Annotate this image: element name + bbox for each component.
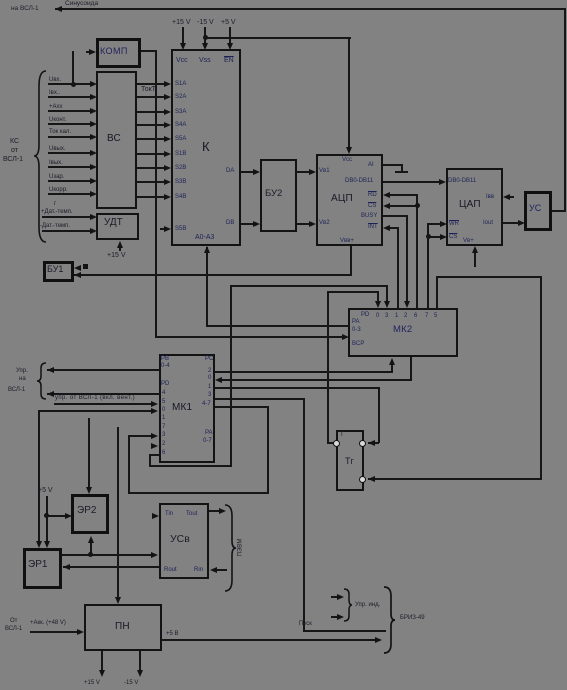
wire ВС to К S4B	[137, 196, 166, 198]
pin PC0	[208, 375, 211, 382]
pin 2 (МК2)	[404, 313, 407, 320]
brace БРИЗ-49	[383, 586, 395, 654]
label +15 V (УДТ)	[107, 252, 126, 260]
wire МК1 PC3 drop (vertical to Пуск)	[303, 398, 305, 632]
pin Iвх (ЦАП right)	[486, 194, 494, 201]
wire stub into ЦАП Iвх	[505, 196, 514, 198]
label ТокТ	[141, 86, 156, 94]
pin S4B	[175, 194, 186, 201]
node Uкорр	[49, 187, 68, 194]
pin А0-А3 (К bottom)	[195, 234, 214, 241]
wire Tout to ПЭВМ brace	[209, 510, 222, 512]
node bubble Тг left-top	[333, 440, 340, 447]
junction dot RD/CS	[415, 203, 420, 208]
pin DB0-DB11 (ЦАП)	[448, 178, 476, 185]
pin S2A	[175, 94, 186, 101]
wire МК1 PD6 riser (vertical x231)	[230, 285, 232, 467]
pin Tin	[165, 511, 173, 518]
wire МК1 PC2 to МК2 bottom (horizontal)	[215, 371, 393, 373]
wire PC4-7 loop bottom (horizontal)	[128, 492, 269, 494]
wire WR from МК2 pin7 riser	[428, 223, 442, 225]
wire +5V into ЭР2	[46, 515, 67, 517]
junction dot WR/CS riser	[426, 234, 431, 239]
wire INT (АЦП to МК2 pin1)	[383, 225, 390, 231]
arrowhead на ВСЛ-1 (left end of sine line)	[55, 6, 62, 12]
wire ВС to К S1B	[137, 153, 166, 155]
wire stub into Tin	[152, 513, 159, 519]
wire Iout ЦАП to УС	[503, 222, 520, 224]
brace Упр. инд.	[343, 588, 352, 622]
wire МК1 PC1 drop to Тг right-top bubble	[378, 387, 380, 443]
wire stub into К S5B	[160, 228, 166, 230]
wire ЭР1 to УСв (horizontal)	[62, 554, 153, 556]
buffer БУ2	[260, 159, 297, 232]
wire МК2 bottom to МК1 PC0 (vertical)	[410, 357, 412, 381]
pin RD (АЦП)	[368, 192, 377, 199]
wire МК2 pin0 net (horizontal from Тг riser)	[327, 291, 379, 293]
wire Синусоида (sine output to ВСЛ-1, top horizontal)	[55, 8, 566, 10]
wire stub into КОМП input	[86, 51, 90, 53]
pin Rin	[194, 567, 203, 574]
node square marker near БУ1	[83, 264, 88, 269]
wire К DA to БУ2	[241, 171, 255, 173]
label +5 В (ПН output)	[166, 631, 179, 638]
pin PC1	[208, 384, 211, 391]
wire into Тг left-top bubble	[327, 442, 335, 444]
wire riser WR/CS down to МК2 pin7	[427, 223, 429, 308]
pin Vв2 (АЦП)	[319, 220, 330, 227]
arrowhead up into К А0-А3	[204, 246, 210, 253]
wire +5V to К EN	[229, 27, 231, 44]
wire ВС to К S1A	[137, 83, 166, 85]
wire +15V to К Vcc	[182, 27, 184, 44]
pin S2B	[175, 165, 186, 172]
pin CS (ЦАП)	[449, 234, 457, 241]
wire PC4-7 drop (vertical)	[267, 406, 269, 494]
pin S5B	[175, 226, 186, 233]
wire МК1 PD6 (horizontal out)	[149, 454, 159, 456]
node bubble Тг right-bottom	[359, 476, 366, 483]
node Uзар	[49, 174, 64, 181]
wire -15V to К Vss	[204, 27, 206, 44]
wire ВС to К S3B	[137, 181, 166, 183]
pin PC (МК1 right)	[205, 356, 213, 363]
pin Vcc (АЦП)	[342, 157, 352, 164]
arrowhead into К EN	[227, 43, 233, 50]
block БУ1	[43, 261, 74, 282]
label +5 V (К supply)	[221, 19, 236, 27]
label упр. от ВСЛ-1 (вкл. вент.)	[55, 395, 135, 402]
pin INT (АЦП)	[368, 224, 378, 231]
pin 7 (МК2)	[425, 313, 428, 320]
arrowhead into АЦП Vcc	[346, 147, 352, 154]
pin PD5	[162, 399, 165, 406]
node bubble Тг right-top	[359, 440, 366, 447]
wire down into МК2 pin3	[386, 285, 388, 303]
relay block ЭР2	[71, 494, 109, 534]
pin DB (К)	[226, 220, 234, 227]
wire ВС to К S2B	[137, 167, 166, 169]
pin S3A	[175, 109, 186, 116]
pin Rout	[164, 567, 177, 574]
power supply ПН	[84, 604, 162, 651]
wire stub Упр.инд upper	[331, 596, 338, 598]
wire БУ2 to АЦП Vв1	[297, 171, 311, 173]
wire КОМП net to МК2 BCP (horizontal)	[155, 336, 345, 338]
pin BUSY (АЦП)	[361, 213, 377, 220]
pin 3 (МК2)	[385, 313, 388, 320]
multiplexer К	[171, 49, 241, 246]
wire МК1 PD4 out to brace	[47, 393, 159, 395]
wire А0-А3 to МК2 PA (horizontal)	[206, 325, 349, 327]
wire -15V rail to АЦП Vcc (horizontal)	[205, 37, 351, 39]
microcontroller МК2	[348, 308, 458, 357]
pin 1 (МК2)	[395, 313, 398, 320]
pin PD6	[162, 450, 165, 457]
microcontroller МК1	[159, 354, 215, 463]
wire ВС to К S3A	[137, 111, 166, 113]
wire ПН -15V down	[139, 651, 141, 673]
arrowhead into Тг right-bottom bubble	[368, 476, 375, 482]
ADC АЦП	[316, 154, 383, 246]
wire PD6 down	[149, 454, 151, 467]
wire А0-А3 vertical (К bottom to МК2 PA row)	[206, 247, 208, 326]
label КС от ВСЛ-1	[10, 138, 19, 146]
pin PD7	[162, 424, 165, 431]
pin 0-4 (МК1)	[161, 363, 170, 370]
wire stub arrow into БУ1 upper	[74, 265, 81, 271]
wire МК1 PD7 drop to ПН	[117, 427, 119, 601]
wire МК1 PC3 (horizontal)	[215, 398, 305, 400]
label От ВСЛ-1	[10, 618, 17, 625]
pin PB (МК1)	[161, 356, 169, 363]
wire АЦП Vref vertical down	[350, 246, 352, 276]
wire into МК1 PD3	[128, 435, 152, 437]
label на ВСЛ-1	[11, 5, 39, 13]
wire stub Упр.инд lower	[331, 616, 338, 618]
label БРИЗ-49	[400, 615, 425, 622]
wire МК1 PC2 riser up into МК2 bottom	[391, 360, 393, 373]
wire right-edge vertical from УС output up to Синусоида line	[564, 8, 566, 212]
pin PC3	[208, 392, 211, 399]
wire loop up to МК1 PD3	[128, 435, 130, 494]
wire ВС to К S5A	[137, 138, 166, 140]
pin S4A	[175, 122, 186, 129]
wire BUSY (АЦП to МК2 pin2)	[383, 215, 408, 217]
pin Iout (ЦАП)	[483, 220, 493, 227]
label +15 V (ПН)	[84, 680, 100, 687]
pin BCP (МК2 left)	[352, 341, 364, 348]
wire ЭР2 bottom to ЭР1-УСв net	[90, 540, 92, 556]
label -15 V (К supply)	[197, 19, 214, 27]
label Синусоида	[65, 0, 98, 8]
pin PD2	[162, 441, 165, 448]
wire into МК1 PD5	[54, 403, 153, 405]
pin S1A	[175, 81, 186, 88]
pin PC4-7	[202, 401, 211, 408]
label Т (Тг top)	[340, 432, 344, 439]
pin Vss (К)	[199, 57, 211, 64]
pin S3B	[175, 179, 186, 186]
wire down to АЦП Vcc	[348, 37, 350, 149]
wire +5V rail down to ЭР1	[46, 496, 48, 544]
wire КОМП output right	[141, 50, 156, 52]
pin PD0	[162, 407, 165, 414]
wire Пуск (horizontal)	[303, 630, 386, 632]
arrowhead into К Vcc	[180, 43, 186, 50]
wire АЦП Vref to БУ1 (horizontal)	[74, 274, 352, 276]
temperature sensor block УДТ	[96, 213, 139, 240]
wire БУ2 to АЦП Vв2	[297, 223, 311, 225]
wire К DB to БУ2	[241, 223, 255, 225]
wire ПН +5В output (horizontal to brace)	[162, 639, 378, 641]
wire ПН +15V down	[101, 651, 103, 673]
label +15 V (К supply)	[172, 19, 191, 27]
label +5 V (ЭР rail)	[38, 487, 53, 495]
wire CS (АЦП)	[383, 203, 390, 209]
pin Tout	[186, 511, 197, 518]
pin 6 (МК2)	[414, 313, 417, 320]
pin WR (ЦАП)	[449, 221, 459, 228]
label Упр. на ВСЛ-1	[16, 368, 28, 375]
pin S1B	[175, 151, 186, 158]
wire МК2 pin3 net (horizontal МК1 PD6 riser to pin3)	[230, 285, 388, 287]
junction dot +5V / ЭР2 feed	[44, 513, 49, 518]
pin PA (МК1 right)	[205, 430, 213, 437]
comparator КОМП	[96, 38, 141, 68]
ground	[401, 164, 403, 172]
wire УСв Rout to ЭР1	[63, 566, 159, 568]
wire МК2 to МК1 PC0 (horizontal)	[221, 379, 411, 381]
wire МК2 pin5 to right drop (horizontal)	[436, 276, 542, 278]
pin Vref+ (АЦП bottom)	[340, 238, 354, 245]
pin Vcc (К)	[176, 57, 188, 64]
relay block ЭР1	[23, 548, 62, 589]
input selector ВС	[96, 71, 137, 209]
junction dot ЭР2 bottom net	[88, 552, 93, 557]
wire МК1 PC1 (horizontal)	[215, 387, 380, 389]
pin CS (АЦП)	[368, 203, 376, 210]
wire PD6 under МК1 (horizontal)	[149, 465, 232, 467]
node t° mark	[54, 201, 56, 208]
junction dot on Uвх wire	[71, 82, 76, 87]
pin 5 (МК2)	[434, 313, 437, 320]
pin PD (МК1)	[161, 381, 169, 388]
node Ток кал	[49, 129, 71, 136]
junction dot -15V rail / АЦП Vcc feed	[203, 35, 208, 40]
node Iвх	[49, 90, 60, 97]
pin AIN (АЦП)	[368, 162, 374, 169]
wire Rin from ПЭВМ brace	[216, 569, 227, 571]
label Тг	[345, 457, 354, 465]
label ПЭВМ (rotated)	[238, 531, 245, 565]
pin PD (МК2 top)	[361, 312, 369, 319]
wire into Тг right-top bubble	[368, 442, 379, 444]
pin 0 (МК2)	[376, 313, 379, 320]
node Uвых	[49, 146, 66, 153]
label +Акк. (+48 V)	[30, 620, 66, 627]
wire down into МК2 pin0	[377, 291, 379, 303]
pin Vв1 (АЦП)	[319, 168, 330, 175]
brace Упр. на ВСЛ-1	[37, 362, 47, 400]
node +Дат.темп.	[41, 209, 73, 216]
wire into МК1 PD0	[38, 410, 153, 412]
interface converter УСв	[159, 503, 209, 579]
wire МК1 PB0-4 out to brace	[47, 369, 159, 371]
brace ПЭВМ	[224, 504, 236, 592]
wire branch from Uвх up to КОМП	[72, 51, 74, 85]
pin Vref+ (ЦАП bottom)	[463, 238, 474, 245]
trigger Тг	[336, 430, 364, 491]
wire stub Vref+ into ЦАП bottom	[474, 248, 476, 267]
DAC ЦАП	[446, 168, 503, 246]
arrowhead into МК2 BCP	[342, 334, 349, 340]
node Uконт	[49, 117, 66, 124]
pin PC2	[208, 368, 211, 375]
label Пуск	[299, 621, 312, 628]
wire МК1 PD1 drop to ЭР2	[88, 418, 90, 489]
pin EN (К)	[224, 57, 234, 64]
wire DB0-DB11 bus АЦП to ЦАП	[383, 181, 443, 183]
label -15 V (ПН)	[124, 680, 138, 687]
node Iвых	[49, 160, 63, 167]
node +Ахх	[49, 104, 63, 111]
wire RD (АЦП to МК2 pin6)	[383, 192, 390, 198]
arrowhead into КОМП	[89, 49, 96, 55]
wire Тг left riser (down to left-top bubble)	[327, 291, 329, 444]
pin PD4	[162, 390, 165, 397]
wire КОМП output down to МК2 BCP row	[155, 50, 157, 338]
node Uвх	[49, 77, 61, 84]
pin 0-7 (МК1)	[203, 438, 212, 445]
wire +Акк into ПН	[30, 631, 79, 633]
arrowhead into МК1 PC0	[215, 377, 222, 383]
wire right drop down to Тг set input	[540, 276, 542, 480]
wire stub into МК1 PD2	[151, 443, 158, 449]
wire CS (ЦАП)	[428, 236, 442, 238]
arrowhead into К Vss	[202, 43, 208, 50]
wire Тг right-bottom input (horizontal)	[368, 478, 542, 480]
wire PD0 net down to ЭР1	[38, 410, 40, 544]
wire ВС to К S4A	[137, 124, 166, 126]
pin S5A	[175, 136, 186, 143]
node -Дат.темп.	[40, 223, 70, 230]
brace КС от ВСЛ-1 (left input bundle)	[33, 70, 47, 243]
pin PD3	[162, 432, 165, 439]
pin 0-3 (МК2 left)	[352, 327, 361, 334]
pin PD1	[162, 415, 165, 422]
label Упр. инд.	[355, 602, 380, 609]
wire AIN to ground	[383, 164, 403, 166]
arrowhead into БУ1 lower	[74, 272, 81, 278]
wire УС output to right edge	[552, 210, 566, 212]
pin DB0-DB11 (АЦП)	[345, 178, 373, 185]
amplifier УС	[524, 191, 552, 231]
pin PA (МК2 left)	[352, 319, 360, 326]
wire +15V stub into УДТ bottom	[119, 243, 121, 251]
wire ВС to К S2A	[137, 96, 166, 98]
wire МК1 PC4-7 (horizontal)	[215, 406, 269, 408]
wire МК2 pin5 riser	[436, 276, 438, 308]
pin DA (К)	[226, 168, 234, 175]
